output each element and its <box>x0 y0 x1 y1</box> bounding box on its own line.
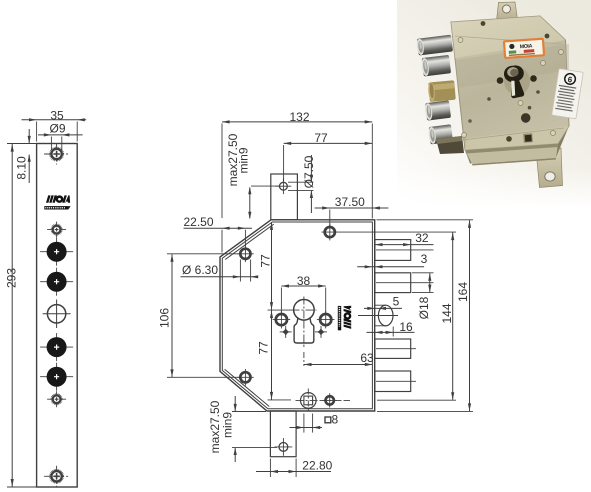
svg-text:min9: min9 <box>237 147 251 173</box>
svg-text:8.10: 8.10 <box>14 156 28 180</box>
svg-text:5: 5 <box>393 294 400 308</box>
svg-text:Ø 6.30: Ø 6.30 <box>182 263 218 277</box>
svg-text:min9: min9 <box>221 412 235 438</box>
svg-text:293: 293 <box>4 268 18 288</box>
svg-text:MOIA: MOIA <box>520 43 533 50</box>
svg-text:37.50: 37.50 <box>335 195 365 209</box>
svg-text:63: 63 <box>360 351 374 365</box>
svg-text:77: 77 <box>256 341 270 355</box>
svg-text:Ø9: Ø9 <box>49 122 65 136</box>
svg-text:22.80: 22.80 <box>302 459 332 473</box>
svg-text:Ø18: Ø18 <box>417 296 431 319</box>
svg-text:77: 77 <box>258 254 272 268</box>
svg-text:Ø7.50: Ø7.50 <box>302 155 316 188</box>
svg-text:22.50: 22.50 <box>183 215 213 229</box>
svg-text:3: 3 <box>421 252 428 266</box>
svg-text:38: 38 <box>297 274 311 288</box>
svg-text:132: 132 <box>289 110 309 124</box>
svg-text:8: 8 <box>331 413 338 427</box>
svg-text:77: 77 <box>314 131 328 145</box>
svg-text:144: 144 <box>440 303 454 323</box>
svg-text:32: 32 <box>415 231 429 245</box>
svg-text:106: 106 <box>157 308 171 328</box>
svg-text:164: 164 <box>456 282 470 302</box>
svg-text:16: 16 <box>399 320 413 334</box>
svg-text:35: 35 <box>50 108 64 122</box>
